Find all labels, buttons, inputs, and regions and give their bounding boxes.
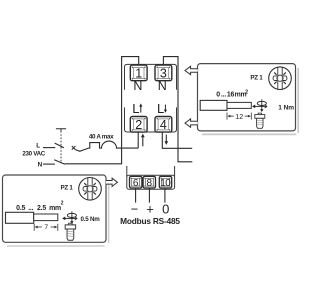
svg-text:8: 8 <box>147 178 153 189</box>
svg-text:N: N <box>158 79 167 93</box>
svg-text:N: N <box>38 161 43 168</box>
svg-text:Modbus RS-485: Modbus RS-485 <box>120 216 180 226</box>
switch S1 pole L blade <box>55 143 64 148</box>
callout box bottom left <box>3 175 107 242</box>
svg-text:0...16mm: 0...16mm <box>216 92 246 99</box>
svg-text:2: 2 <box>61 201 64 207</box>
svg-text:4: 4 <box>160 118 167 132</box>
svg-text:L: L <box>157 101 164 116</box>
terminal 3 <box>155 65 172 81</box>
screw icon top box <box>255 113 265 128</box>
svg-text:−: − <box>131 201 139 216</box>
svg-text:2: 2 <box>245 89 248 95</box>
contact cross mark <box>72 146 76 150</box>
meter panel B bracket <box>125 107 177 132</box>
breaker 40A thermal-magnetic bumps <box>89 141 139 148</box>
cable insulated part bottom box <box>6 212 34 223</box>
pozidriv symbol top box <box>269 67 292 90</box>
cable insulated part top box <box>200 100 227 110</box>
terminal 2 <box>130 117 147 133</box>
callout arrow to terminal 4 <box>185 119 198 127</box>
svg-text:L: L <box>132 101 139 116</box>
svg-text:230 VAC: 230 VAC <box>22 151 45 158</box>
wire L out from terminal 4 to load <box>162 132 192 148</box>
RS485 wire plus <box>148 188 150 202</box>
screw icon bottom box <box>65 223 76 240</box>
torque icon bottom box <box>62 211 77 224</box>
svg-text:1 Nm: 1 Nm <box>278 104 294 111</box>
svg-text:7: 7 <box>44 224 48 231</box>
cable bare conductor bottom box <box>34 214 58 221</box>
wire L supply <box>43 147 55 149</box>
svg-text:10: 10 <box>160 178 171 189</box>
wire dip after contact <box>75 148 88 151</box>
cable bare conductor top box <box>227 102 251 108</box>
svg-text:6: 6 <box>133 178 139 189</box>
callout arrow to RS485 terminals <box>106 178 118 186</box>
svg-text:0.5...2.5mm: 0.5...2.5mm <box>16 205 61 212</box>
svg-text:40 A max: 40 A max <box>89 133 114 140</box>
callout box top right shadow <box>202 68 298 134</box>
wire N run to meter <box>65 57 139 164</box>
svg-text:+: + <box>146 201 154 216</box>
wire N out from terminal 3 to load <box>163 57 192 162</box>
switch linkage dashed <box>60 131 62 163</box>
terminal 6 <box>130 176 142 188</box>
svg-text:0.5 Nm: 0.5 Nm <box>81 216 101 223</box>
terminal 1 <box>130 65 147 81</box>
callout arrow to terminal 3 <box>185 66 198 74</box>
pozidriv symbol bottom box <box>79 178 102 201</box>
svg-text:N: N <box>133 79 142 93</box>
switch handle T <box>56 129 66 132</box>
terminal 8 <box>143 176 155 188</box>
svg-text:0: 0 <box>162 201 169 216</box>
wire riser into terminal 2 <box>137 132 139 148</box>
meter panel A bracket <box>125 64 177 89</box>
callout box bottom left shadow <box>7 180 109 246</box>
callout box top right <box>198 64 296 131</box>
RS485 wire minus <box>135 188 137 202</box>
svg-text:12: 12 <box>235 114 243 121</box>
energy import arrow up <box>142 136 144 146</box>
switch S1 pole N blade <box>54 160 65 164</box>
energy export arrow down <box>165 135 167 143</box>
svg-text:PZ 1: PZ 1 <box>61 184 74 191</box>
terminal 10 <box>159 176 171 188</box>
dimension 7 <box>33 224 35 231</box>
svg-text:2: 2 <box>135 118 142 132</box>
wire N supply <box>43 163 55 165</box>
dimension 12 <box>226 113 228 120</box>
svg-text:L: L <box>36 143 40 150</box>
svg-text:PZ 1: PZ 1 <box>250 74 263 81</box>
RS485 wire zero <box>164 188 166 202</box>
meter panel C around RS485 terminals <box>126 166 128 177</box>
torque icon top box <box>252 99 267 112</box>
terminal 4 <box>155 117 172 133</box>
